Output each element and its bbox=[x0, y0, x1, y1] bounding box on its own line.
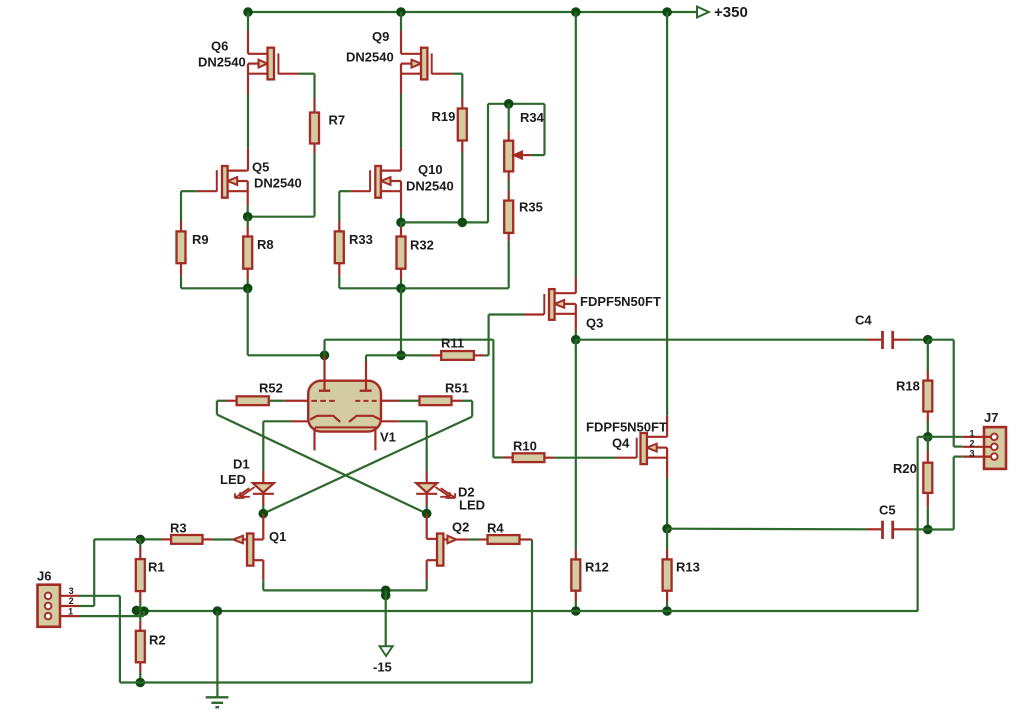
wire node to ground rail bbox=[918, 437, 928, 611]
label R52 bbox=[259, 381, 283, 396]
svg-text:R9: R9 bbox=[192, 232, 209, 247]
resistor R9 bbox=[177, 231, 186, 263]
wire R3 right stub bbox=[203, 538, 213, 540]
wire R3 node to R1 bbox=[139, 539, 141, 559]
resistor R35 bbox=[504, 201, 513, 233]
junction dot R19 bottom bbox=[458, 218, 468, 228]
svg-text:R52: R52 bbox=[259, 381, 283, 396]
svg-text:Q6: Q6 bbox=[211, 39, 228, 54]
wire Q6 source to Q5 drain bbox=[247, 74, 249, 171]
svg-text:R33: R33 bbox=[349, 232, 373, 247]
tube V1 left grid bbox=[311, 400, 336, 402]
wire Q3 drain from rail bbox=[575, 12, 577, 293]
wire left plate node over to R10 leg bbox=[325, 340, 494, 458]
label Q2 bbox=[452, 520, 469, 535]
wire R52 to diagonal bbox=[217, 401, 237, 415]
resistor R8 bbox=[243, 237, 252, 269]
svg-text:FDPF5N50FT: FDPF5N50FT bbox=[580, 294, 661, 309]
label Q6 bbox=[211, 39, 228, 54]
junction dot rail-Q3 bbox=[571, 7, 581, 17]
wire right grid to R51 bbox=[381, 400, 420, 402]
wire Q3 gate to R11 bbox=[489, 315, 545, 356]
pin number J6-1 bbox=[68, 606, 73, 616]
svg-text:FDPF5N50FT: FDPF5N50FT bbox=[586, 420, 667, 435]
label R10 bbox=[513, 439, 537, 454]
wire Q9 source to Q10 drain bbox=[400, 74, 402, 171]
label R4 bbox=[487, 521, 504, 536]
svg-text:Q3: Q3 bbox=[586, 316, 603, 331]
transistor Q1 bbox=[233, 534, 263, 566]
svg-text:3: 3 bbox=[969, 448, 974, 458]
label R18 bbox=[896, 379, 920, 394]
label R51 bbox=[445, 381, 469, 396]
label Q3 bbox=[586, 316, 603, 331]
wire R19 bottom bbox=[461, 141, 463, 223]
junction dot R3-R1 node bbox=[136, 535, 146, 545]
wire J7 pin3 to C5 node bbox=[928, 457, 963, 530]
wire C4 node to R18 bbox=[927, 340, 929, 381]
wire R51 to diagonal bbox=[452, 401, 473, 417]
wire J6 pin3 bbox=[52, 595, 120, 597]
wire R9 bottom bbox=[181, 263, 248, 288]
wire right plate node to R11 bbox=[401, 354, 441, 356]
wire Q2 source down bbox=[426, 560, 428, 590]
resistor R52 bbox=[237, 396, 269, 405]
resistor R2 bbox=[136, 631, 145, 663]
wire Q4 source to node bbox=[666, 458, 668, 529]
junction dot D2-Q2 node bbox=[422, 509, 432, 519]
svg-text:V1: V1 bbox=[380, 430, 396, 445]
svg-text:Q10: Q10 bbox=[418, 162, 443, 177]
label R3 bbox=[170, 521, 187, 536]
connector J7 bbox=[963, 427, 1006, 469]
resistor R13 bbox=[663, 559, 672, 590]
label Q4 value FDPF5N50FT bbox=[586, 420, 667, 435]
tube V1 left plate bbox=[319, 390, 330, 392]
svg-text:C4: C4 bbox=[855, 313, 872, 328]
wire Q10 gate to R33 bbox=[339, 191, 370, 231]
power arrow -15 bbox=[380, 646, 393, 656]
wire R34-R35 bbox=[508, 171, 510, 200]
junction dot Q3 source node bbox=[571, 335, 581, 345]
wire left CCS node down to left plate bbox=[248, 288, 325, 355]
wire Q6 drain from rail bbox=[247, 12, 249, 54]
junction dot R18 bottom node bbox=[923, 432, 933, 442]
junction dot Q5 source node bbox=[243, 212, 253, 222]
label Q9 bbox=[372, 29, 389, 44]
wire R20 bottom bbox=[927, 493, 929, 530]
led D1 bbox=[253, 483, 274, 494]
svg-text:DN2540: DN2540 bbox=[254, 176, 302, 191]
wire R3 left stub bbox=[140, 538, 171, 540]
wire R2 bottom bbox=[139, 662, 141, 682]
wire R33 bottom bbox=[339, 263, 401, 288]
wire R3 to Q1 gate bbox=[212, 538, 233, 540]
svg-text:Q4: Q4 bbox=[612, 436, 630, 451]
wire R13 bottom bbox=[666, 591, 668, 611]
svg-text:1: 1 bbox=[969, 428, 974, 438]
svg-text:DN2540: DN2540 bbox=[346, 50, 394, 65]
wire Q9 drain from rail bbox=[400, 12, 402, 54]
resistor R18 bbox=[923, 381, 932, 412]
svg-text:1: 1 bbox=[68, 606, 73, 616]
label Q5 value DN2540 bbox=[254, 176, 302, 191]
wire ground rail bbox=[133, 610, 918, 612]
resistor R20 bbox=[923, 463, 932, 493]
label Q10 bbox=[418, 162, 443, 177]
wire diagonal R52 to D2 node bbox=[217, 415, 427, 514]
svg-text:R35: R35 bbox=[519, 200, 543, 215]
label Q9 value DN2540 bbox=[346, 50, 394, 65]
wire R11 to Q3 gate riser bbox=[474, 354, 489, 356]
wire diagonal R51 to D1 node bbox=[263, 417, 472, 514]
wire R10 to Q4 gate bbox=[544, 457, 636, 459]
wire R18 bottom bbox=[927, 412, 929, 437]
junction dot R12 bottom bbox=[571, 606, 581, 616]
tube V1 heater pin right bbox=[374, 428, 376, 451]
label R2 bbox=[149, 633, 166, 648]
wire node to J7 pin1 bbox=[928, 436, 963, 438]
svg-text:R18: R18 bbox=[896, 379, 920, 394]
label R20 bbox=[893, 461, 917, 476]
label R34 bbox=[520, 110, 545, 125]
wire J6 pin1 bbox=[52, 611, 144, 616]
svg-text:3: 3 bbox=[69, 586, 74, 596]
capacitor C5 bbox=[883, 521, 893, 539]
wire +350 supply rail bbox=[248, 11, 697, 13]
svg-text:-15: -15 bbox=[373, 660, 392, 675]
wire Q3 source to node bbox=[575, 314, 577, 340]
wire left plate drop bbox=[323, 355, 325, 390]
label Q5 bbox=[252, 160, 269, 175]
svg-text:R51: R51 bbox=[445, 381, 469, 396]
wire node to R8 bbox=[247, 217, 249, 237]
svg-text:R11: R11 bbox=[441, 336, 464, 351]
pin number J6-2 bbox=[69, 596, 74, 606]
wire D1 node to Q1 drain bbox=[253, 514, 263, 540]
junction dot tail lower bbox=[381, 591, 391, 601]
transistor Q10 bbox=[370, 166, 401, 198]
svg-text:LED: LED bbox=[220, 472, 246, 487]
junction dot R8-R9 node bbox=[243, 284, 253, 294]
junction dot Q10 source node bbox=[396, 218, 406, 228]
tube V1 envelope bbox=[308, 381, 381, 432]
svg-text:D1: D1 bbox=[233, 457, 250, 472]
label R1 bbox=[148, 560, 165, 575]
svg-text:R7: R7 bbox=[329, 113, 346, 128]
junction dot rail-Q9 bbox=[396, 7, 406, 17]
svg-text:R8: R8 bbox=[257, 237, 274, 252]
svg-text:DN2540: DN2540 bbox=[198, 55, 246, 70]
wire common source bbox=[263, 589, 426, 591]
wire Q9 gate to R19 bbox=[432, 74, 463, 109]
svg-text:R13: R13 bbox=[676, 560, 700, 575]
wire Q4 source node to C5 bbox=[667, 528, 881, 531]
junction dot rail-R1R2 bbox=[132, 606, 149, 616]
pin number J7-2 bbox=[969, 438, 974, 448]
wire R35 bottom to node bbox=[401, 233, 509, 288]
power arrow +350 bbox=[697, 7, 709, 18]
wire D2 node to Q2 drain bbox=[427, 514, 437, 539]
svg-text:C5: C5 bbox=[879, 503, 896, 518]
led D2 bbox=[416, 483, 437, 494]
transistor Q4 bbox=[637, 433, 667, 464]
junction dot C5 node bbox=[923, 525, 933, 535]
tube V1 heater bar bbox=[315, 426, 378, 428]
svg-text:Q9: Q9 bbox=[372, 29, 389, 44]
svg-text:R4: R4 bbox=[487, 521, 504, 536]
led D2 arrows bbox=[435, 487, 455, 498]
wire R10 left stub bbox=[493, 456, 512, 458]
label V1 bbox=[380, 430, 396, 445]
svg-text:R3: R3 bbox=[170, 521, 187, 536]
svg-text:Q1: Q1 bbox=[269, 529, 286, 544]
junction dot R13 bottom bbox=[662, 606, 672, 616]
wire node to R32 bbox=[400, 222, 402, 236]
label C5 bbox=[879, 503, 896, 518]
junction dot rail-Q4 bbox=[662, 7, 672, 17]
junction dot C4 node bbox=[923, 335, 933, 345]
wire R12 bottom bbox=[575, 591, 577, 611]
svg-text:2: 2 bbox=[969, 438, 974, 448]
resistor R19 bbox=[458, 109, 467, 141]
transistor Q2 bbox=[427, 534, 457, 566]
wiper arrow R34 bbox=[514, 152, 545, 159]
pin number J6-3 bbox=[69, 586, 74, 596]
wire R8 bottom bbox=[247, 269, 249, 289]
wire Q4 drain from rail bbox=[666, 12, 668, 437]
transistor Q9 bbox=[401, 48, 432, 80]
wire R34 upper stub bbox=[508, 104, 510, 141]
wire rail to R2 bbox=[139, 612, 141, 631]
tube V1 left cathode bbox=[310, 416, 340, 422]
junction dot rail-ground bbox=[213, 606, 223, 616]
wire Q5 source to node bbox=[247, 191, 249, 217]
label R19 bbox=[432, 109, 456, 124]
label Q10 value DN2540 bbox=[406, 179, 454, 194]
pin number J7-3 bbox=[969, 448, 974, 458]
resistor R51 bbox=[420, 396, 452, 405]
wire right cathode to D2 bbox=[381, 421, 427, 483]
svg-text:R12: R12 bbox=[585, 560, 609, 575]
led D1 arrows bbox=[235, 487, 255, 498]
wire left grid to R52 bbox=[269, 400, 308, 402]
wire C4 right bbox=[894, 339, 928, 341]
label R7 bbox=[329, 113, 346, 128]
net label -15 bbox=[373, 660, 392, 675]
wire R7 to Q5 source node bbox=[248, 144, 315, 217]
svg-text:R10: R10 bbox=[513, 439, 537, 454]
svg-text:+350: +350 bbox=[714, 4, 748, 21]
label R33 bbox=[349, 232, 373, 247]
capacitor C4 bbox=[883, 331, 893, 349]
wire C4 node to J7 pin2 bbox=[928, 340, 963, 447]
wire D1 to Q1 drain node bbox=[262, 494, 264, 514]
junction dot rail-Q6 bbox=[243, 7, 253, 17]
label R32 bbox=[410, 238, 434, 253]
wire J6 pin2 bbox=[52, 539, 141, 606]
wire R1 bottom bbox=[139, 591, 141, 610]
svg-text:R19: R19 bbox=[432, 109, 456, 124]
svg-text:R1: R1 bbox=[148, 560, 165, 575]
label Q1 bbox=[269, 529, 286, 544]
junction dot R32-R33 node bbox=[396, 284, 406, 294]
junction dot left plate node bbox=[320, 351, 330, 361]
wire Q3 source node down bbox=[575, 340, 577, 560]
wire tail down bbox=[385, 590, 387, 646]
svg-text:J6: J6 bbox=[37, 569, 51, 584]
wire mid CCS node down to right plate net bbox=[400, 288, 402, 355]
label D2 value LED bbox=[459, 498, 485, 513]
label Q3 value FDPF5N50FT bbox=[580, 294, 661, 309]
wire Q5 gate to R9 bbox=[181, 191, 217, 231]
connector J6 bbox=[38, 585, 61, 627]
wire Q2 gate to R4 bbox=[456, 538, 487, 540]
transistor Q5 bbox=[217, 166, 248, 198]
trimmer R34 bbox=[504, 141, 513, 172]
wire R4 right down to bottom bbox=[520, 540, 533, 683]
resistor R33 bbox=[335, 231, 344, 263]
wire Q4 node to R13 bbox=[666, 529, 668, 560]
transistor Q3 bbox=[544, 289, 576, 320]
junction dot Q4 source node bbox=[662, 524, 672, 534]
wire Q10 source to node bbox=[400, 191, 402, 222]
wire Q10 source node to R34 leg bbox=[401, 221, 488, 223]
label Q4 bbox=[612, 436, 630, 451]
tube V1 right plate bbox=[360, 390, 372, 392]
pin number J7-1 bbox=[969, 428, 974, 438]
junction dot tail upper bbox=[381, 586, 391, 596]
svg-text:2: 2 bbox=[69, 596, 74, 606]
junction dot R34 top bbox=[504, 99, 514, 109]
net label +350 bbox=[714, 4, 748, 21]
wire D2 to Q2 drain node bbox=[426, 494, 428, 514]
label R12 bbox=[585, 560, 609, 575]
label Q6 value DN2540 bbox=[198, 55, 246, 70]
label D2 bbox=[458, 485, 475, 500]
resistor R32 bbox=[397, 237, 406, 269]
wire bottom return bbox=[120, 596, 532, 683]
wire right plate drop bbox=[366, 355, 401, 390]
junction dot R2 bottom bbox=[136, 678, 146, 688]
label R35 bbox=[519, 200, 543, 215]
label D1 bbox=[233, 457, 250, 472]
resistor R11 bbox=[441, 351, 474, 360]
label J7 bbox=[984, 410, 998, 425]
svg-text:Q5: Q5 bbox=[252, 160, 269, 175]
resistor R12 bbox=[571, 559, 580, 590]
label J6 bbox=[37, 569, 51, 584]
wire Q1 source down bbox=[262, 560, 264, 590]
wire R34 top link bbox=[488, 104, 545, 223]
resistor R7 bbox=[310, 113, 319, 144]
svg-text:R32: R32 bbox=[410, 238, 434, 253]
junction dot D1-Q1 node bbox=[259, 509, 269, 519]
tube V1 right grid bbox=[355, 400, 381, 402]
label R11 bbox=[441, 336, 464, 351]
svg-text:R2: R2 bbox=[149, 633, 166, 648]
label R13 bbox=[676, 560, 700, 575]
wire C5 right bbox=[894, 528, 928, 530]
wire R32 bottom bbox=[400, 269, 402, 289]
svg-text:R34: R34 bbox=[520, 110, 545, 125]
junction dot right plate node bbox=[396, 351, 406, 361]
label D1 value LED bbox=[220, 472, 246, 487]
svg-text:LED: LED bbox=[459, 498, 485, 513]
resistor R4 bbox=[488, 535, 520, 544]
label R8 bbox=[257, 237, 274, 252]
svg-text:J7: J7 bbox=[984, 410, 998, 425]
resistor R10 bbox=[513, 453, 545, 462]
tube V1 heater pin left bbox=[313, 428, 315, 451]
wire left cathode to D1 bbox=[263, 421, 308, 483]
svg-text:DN2540: DN2540 bbox=[406, 179, 454, 194]
ground symbol bbox=[206, 611, 229, 707]
svg-text:R20: R20 bbox=[893, 461, 917, 476]
resistor R1 bbox=[136, 559, 145, 591]
wire node to R20 bbox=[927, 437, 929, 463]
wire Q6 gate to R7 bbox=[278, 74, 314, 113]
svg-text:Q2: Q2 bbox=[452, 520, 469, 535]
tube V1 right cathode bbox=[349, 416, 380, 422]
label C4 bbox=[855, 313, 872, 328]
resistor R3 bbox=[171, 535, 202, 544]
label R9 bbox=[192, 232, 209, 247]
wire Q3 source to C4 bbox=[576, 339, 881, 341]
transistor Q6 bbox=[248, 48, 278, 80]
